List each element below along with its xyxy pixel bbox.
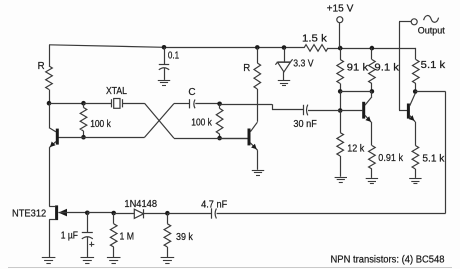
svg-text:R: R [243, 63, 250, 74]
svg-text:+15 V: +15 V [327, 3, 354, 14]
svg-text:4.7 nF: 4.7 nF [201, 200, 227, 211]
svg-text:R: R [38, 61, 45, 72]
svg-text:XTAL: XTAL [106, 86, 127, 97]
svg-text:C: C [188, 87, 195, 98]
svg-text:1 M: 1 M [120, 231, 135, 242]
svg-text:Output: Output [418, 26, 445, 36]
svg-text:1.5 k: 1.5 k [302, 34, 328, 45]
svg-text:0.91 k: 0.91 k [378, 153, 404, 164]
svg-text:39 k: 39 k [176, 232, 194, 243]
svg-text:91 k: 91 k [347, 63, 369, 74]
svg-text:9.1 k: 9.1 k [374, 63, 400, 74]
svg-text:30 nF: 30 nF [293, 119, 316, 130]
svg-text:1 µF: 1 µF [61, 231, 78, 242]
svg-text:NPN transistors: (4) BC548: NPN transistors: (4) BC548 [331, 254, 445, 265]
svg-text:0.1: 0.1 [168, 50, 180, 61]
svg-text:NTE312: NTE312 [12, 208, 47, 219]
svg-text:5.1 k: 5.1 k [421, 60, 447, 71]
svg-text:12 k: 12 k [347, 144, 365, 155]
svg-text:100 k: 100 k [191, 118, 212, 129]
svg-text:3.3 V: 3.3 V [293, 59, 314, 70]
svg-text:1N4148: 1N4148 [124, 199, 157, 210]
svg-text:5.1 k: 5.1 k [422, 154, 445, 165]
svg-text:100 k: 100 k [90, 119, 111, 130]
